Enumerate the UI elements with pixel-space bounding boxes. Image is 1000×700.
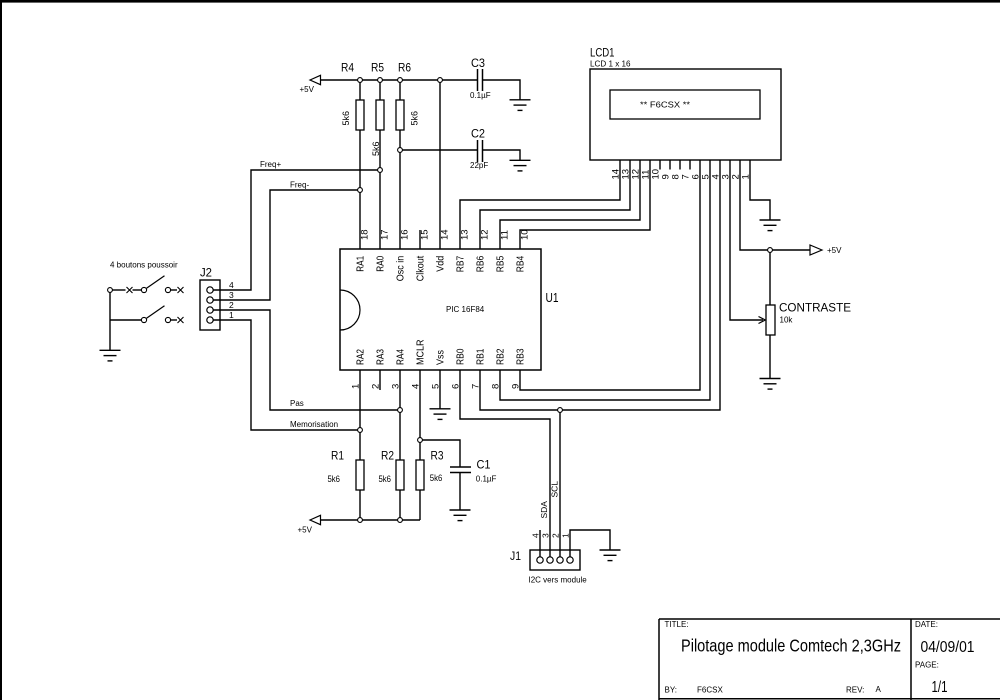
svg-text:17: 17: [380, 229, 391, 240]
svg-text:5k6: 5k6: [328, 474, 341, 484]
pot wiper arrowhead: [759, 317, 766, 324]
svg-text:1: 1: [229, 310, 234, 320]
svg-text:Vdd: Vdd: [435, 256, 447, 272]
ground Vss: [430, 409, 451, 420]
svg-text:SDA: SDA: [539, 501, 549, 519]
svg-text:RB2: RB2: [495, 348, 507, 365]
svg-text:1/1: 1/1: [932, 679, 948, 696]
svg-text:10k: 10k: [780, 316, 794, 325]
svg-text:11: 11: [500, 230, 511, 240]
svg-text:RA2: RA2: [355, 349, 367, 365]
svg-text:A: A: [876, 685, 882, 694]
svg-text:DATE:: DATE:: [915, 620, 938, 629]
wire U1 pin11 RB5 to LCD pin12: [500, 160, 640, 249]
wire button row1 left: [110, 289, 126, 291]
wire U1 pin15 Clkout stub: [419, 230, 421, 249]
svg-text:LCD 1 x 16: LCD 1 x 16: [590, 60, 631, 69]
svg-text:Clkout: Clkout: [415, 256, 427, 282]
capacitor C3: [478, 69, 483, 91]
wire C2 to ground: [483, 150, 520, 160]
node R1 bottom: [358, 518, 363, 523]
power +5V arrow top-left: [310, 75, 321, 84]
node SCL tap: [558, 408, 563, 413]
J1 pin circle 4: [537, 557, 543, 563]
resistor R4: [356, 100, 364, 130]
J1 pin circle 3: [547, 557, 553, 563]
svg-text:F6CSX: F6CSX: [697, 686, 723, 695]
power +5V arrow right: [810, 245, 822, 255]
wire R6 leads: [399, 80, 401, 249]
wire LCD pin9 stub: [669, 160, 671, 170]
wire U1 pin1 RA2 to R1: [359, 370, 361, 460]
svg-text:RA1: RA1: [355, 256, 367, 272]
svg-text:TITLE:: TITLE:: [665, 620, 689, 629]
svg-text:RB0: RB0: [455, 348, 467, 365]
wire U1 pin3 RA4 to R2: [399, 370, 401, 460]
wire R5 leads: [379, 80, 381, 249]
wire button row2 left: [110, 319, 141, 321]
wire U1 pin4 MCLR to R3: [419, 370, 421, 460]
svg-text:14: 14: [440, 229, 451, 240]
wire C1 to ground: [459, 473, 461, 510]
svg-text:4: 4: [531, 533, 541, 538]
switch SW1: [141, 287, 146, 292]
svg-text:LCD1: LCD1: [590, 46, 615, 60]
node LCD Vdd / pot tap: [768, 248, 773, 253]
J2 pin circle 4: [207, 287, 213, 293]
wire LCD pin3 to pot wiper: [730, 160, 763, 320]
svg-text:MCLR: MCLR: [415, 339, 427, 365]
wire R4 leads: [359, 80, 361, 249]
svg-text:0.1µF: 0.1µF: [476, 475, 497, 484]
svg-text:10: 10: [520, 229, 531, 240]
resistor R2: [396, 460, 404, 490]
contact mark X row1 right: [178, 287, 184, 293]
svg-text:5k6: 5k6: [410, 111, 420, 126]
svg-text:RA3: RA3: [375, 349, 387, 365]
resistor R3: [416, 460, 424, 490]
svg-text:RB1: RB1: [475, 348, 487, 365]
svg-text:RA0: RA0: [375, 256, 387, 272]
node C2 tap on R6 net: [398, 148, 403, 153]
node Freq- tap: [358, 188, 363, 193]
node R5 top: [378, 78, 383, 83]
ground buttons: [100, 350, 121, 361]
switch SW2: [141, 317, 146, 322]
node Memorisation tap: [358, 428, 363, 433]
svg-text:18: 18: [360, 229, 371, 240]
wire U1 pin8 RB2 to LCD pin5: [500, 160, 710, 400]
svg-text:+5V: +5V: [298, 526, 313, 535]
ground C1: [450, 510, 471, 521]
svg-text:Vss: Vss: [435, 350, 447, 365]
svg-text:R5: R5: [371, 61, 384, 75]
node Freq+ tap: [378, 168, 383, 173]
svg-text:1: 1: [561, 533, 571, 538]
svg-text:+5V: +5V: [300, 85, 315, 94]
wire Memorisation from J2 pin1: [213, 320, 360, 430]
svg-text:Pilotage module Comtech 2,3GHz: Pilotage module Comtech 2,3GHz: [681, 636, 901, 656]
capacitor C1: [450, 467, 471, 473]
svg-text:2: 2: [229, 300, 234, 310]
wire Pas from J2 pin2: [213, 310, 400, 410]
wire J1 pin1 to ground: [570, 530, 610, 557]
svg-text:BY:: BY:: [665, 686, 677, 695]
ground LCD pin1: [760, 220, 781, 231]
ground J1: [600, 550, 621, 561]
svg-text:RB5: RB5: [495, 256, 507, 273]
contact mark X row2 right: [178, 317, 184, 323]
wire SCL branch to J1 pin2: [559, 410, 561, 557]
wire LCD pin8 stub: [679, 160, 681, 170]
title block: [659, 619, 1000, 700]
wire button row2 right: [171, 319, 177, 321]
node buttons common: [108, 288, 113, 293]
J1 pin circle 2: [557, 557, 563, 563]
wire U1 pin7 RB1 SCL to LCD pin4: [480, 160, 720, 410]
svg-text:3: 3: [229, 290, 234, 300]
wire R1 bottom lead: [359, 490, 361, 520]
J2 pin circle 2: [207, 307, 213, 313]
svg-text:C3: C3: [471, 56, 485, 70]
wire U1 pin5 Vss to ground: [439, 370, 441, 409]
resistor R5: [376, 100, 384, 130]
wire R2 bottom lead: [399, 490, 401, 520]
wire C3 to ground: [483, 80, 520, 100]
svg-text:R4: R4: [341, 61, 354, 75]
LCD1 screen: [610, 90, 760, 119]
resistor R6: [396, 100, 404, 130]
ground C3: [510, 100, 531, 111]
svg-text:J2: J2: [200, 266, 212, 280]
svg-text:5k6: 5k6: [341, 111, 351, 126]
node Vdd rail: [438, 78, 443, 83]
wire button row1 mid: [133, 289, 142, 291]
svg-text:C1: C1: [477, 458, 491, 472]
svg-text:** F6CSX **: ** F6CSX **: [640, 100, 691, 110]
svg-text:REV:: REV:: [846, 686, 864, 695]
J2 pin circle 1: [207, 317, 213, 323]
node R4 top: [358, 78, 363, 83]
svg-text:RB7: RB7: [455, 256, 467, 273]
svg-text:Memorisation: Memorisation: [290, 420, 338, 429]
wire MCLR to C1: [420, 440, 460, 467]
svg-text:RB4: RB4: [515, 256, 527, 273]
resistor R1: [356, 460, 364, 490]
J2 pin circle 3: [207, 297, 213, 303]
svg-text:R1: R1: [331, 449, 344, 463]
wire pot bottom lead: [769, 335, 771, 378]
wire LCD pin10 stub: [659, 160, 661, 170]
svg-text:RA4: RA4: [395, 349, 407, 365]
capacitor C2: [478, 140, 483, 162]
J1 pin circle 1: [567, 557, 573, 563]
svg-text:SCL: SCL: [550, 481, 560, 498]
wire U1 pin9 RB3 to LCD pin6: [520, 160, 700, 390]
svg-text:16: 16: [400, 229, 411, 240]
node Pas tap: [398, 408, 403, 413]
wire buttons to ground: [109, 290, 111, 350]
svg-text:Freq+: Freq+: [260, 160, 281, 169]
wire U1 pin13 RB7 to LCD pin14: [460, 160, 620, 249]
svg-text:22pF: 22pF: [470, 161, 488, 170]
wire LCD pin7 stub: [689, 160, 691, 170]
svg-text:12: 12: [480, 229, 491, 240]
svg-text:R2: R2: [381, 449, 394, 463]
wire U1 pin10 RB4 to LCD pin11: [520, 160, 650, 249]
svg-text:04/09/01: 04/09/01: [921, 639, 975, 656]
U1 notch: [340, 290, 360, 330]
svg-text:5k6: 5k6: [430, 473, 443, 483]
svg-text:4 boutons poussoir: 4 boutons poussoir: [110, 261, 178, 270]
svg-text:U1: U1: [546, 291, 559, 305]
wire LCD pin1 to ground: [750, 160, 770, 220]
wire R3 bottom lead: [419, 490, 421, 520]
wire U1 pin2 RA3 stub: [379, 370, 381, 390]
svg-text:J1: J1: [510, 549, 521, 563]
svg-text:PIC 16F84: PIC 16F84: [446, 305, 485, 314]
svg-text:R3: R3: [431, 449, 444, 463]
node MCLR C1 tap: [418, 438, 423, 443]
svg-text:+5V: +5V: [827, 246, 842, 255]
svg-text:Pas: Pas: [290, 399, 304, 408]
svg-text:I2C vers module: I2C vers module: [529, 576, 588, 585]
wire U1 pin6 RB0 SDA to J1 pin3: [460, 370, 550, 557]
wire C2 net from R6 wire: [400, 149, 477, 151]
power +5V arrow bottom-left: [310, 515, 321, 524]
wire J1 pin4 stub: [539, 530, 541, 557]
node R2 bottom: [398, 518, 403, 523]
svg-text:0.1µF: 0.1µF: [470, 91, 491, 100]
IC U1 body (PIC 16F84): [340, 249, 541, 370]
svg-text:R6: R6: [398, 61, 411, 75]
svg-text:15: 15: [420, 229, 431, 240]
wire Freq- from J2 pin3: [213, 190, 360, 300]
svg-text:RB3: RB3: [515, 348, 527, 365]
svg-text:Freq-: Freq-: [290, 181, 309, 190]
node R6 top: [398, 78, 403, 83]
svg-text:2: 2: [551, 533, 561, 538]
wire U1 pin14 Vdd to +5V rail: [439, 80, 441, 249]
svg-text:Osc in: Osc in: [395, 256, 407, 282]
wire U1 pin12 RB6 to LCD pin13: [480, 160, 630, 249]
wire +5V rail bottom: [321, 519, 421, 521]
svg-text:3: 3: [541, 533, 551, 538]
ground pot: [760, 379, 781, 390]
contact mark X row1 left: [127, 287, 133, 293]
svg-text:RB6: RB6: [475, 256, 487, 273]
svg-text:PAGE:: PAGE:: [915, 661, 939, 670]
svg-text:CONTRASTE: CONTRASTE: [779, 301, 851, 315]
svg-text:C2: C2: [471, 127, 485, 141]
wire +5V rail top: [321, 79, 478, 81]
ground C2: [510, 160, 531, 171]
wire LCD pin2 to +5V: [740, 160, 810, 250]
wire button row1 right: [171, 289, 177, 291]
wire Freq+ from J2 pin4: [213, 170, 380, 290]
svg-text:5k6: 5k6: [379, 474, 392, 484]
svg-text:4: 4: [229, 280, 234, 290]
wire pot top lead: [769, 250, 771, 305]
svg-text:13: 13: [460, 229, 471, 240]
